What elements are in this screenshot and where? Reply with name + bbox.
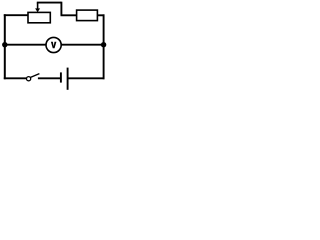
voltmeter V (circle body) (46, 37, 61, 52)
wire top horizontal (37, 2, 62, 4)
wire right vertical (103, 14, 105, 79)
rheostat slider arrowhead (35, 8, 40, 12)
wire switch to battery (38, 77, 60, 79)
wire resistor to top-right corner (97, 14, 104, 16)
wire middle left (4, 44, 47, 46)
voltmeter label V (51, 42, 57, 49)
battery long plate (positive) (67, 68, 69, 90)
wire step vertical (60, 2, 62, 16)
rheostat slider arrow shaft (37, 3, 39, 10)
rheostat R (rectangle body) (28, 12, 50, 22)
battery short plate (negative) (60, 72, 62, 82)
node junction dot right (101, 42, 106, 47)
wire battery to bottom-right corner (68, 77, 105, 79)
wire top-left horizontal (4, 14, 28, 16)
node junction dot left (2, 42, 7, 47)
switch S pivot circle (27, 77, 31, 81)
wire left vertical (4, 14, 6, 79)
wire middle right (61, 44, 104, 46)
wire bottom left (4, 77, 27, 79)
switch S lever (30, 74, 39, 78)
wire to resistor (61, 14, 77, 16)
resistor R2 (rectangle body) (77, 10, 98, 21)
